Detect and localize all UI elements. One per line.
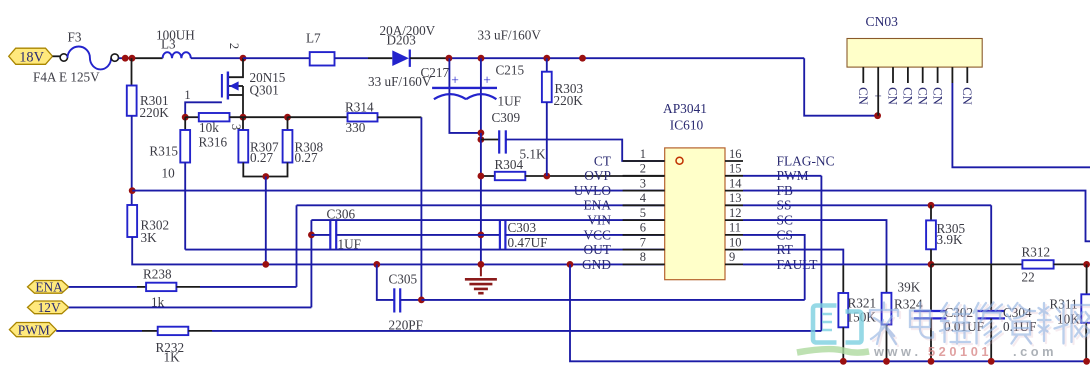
- junction C305 column: [373, 261, 380, 268]
- wire sense tap to GND row: [265, 177, 267, 265]
- wire L3 to Q301 drain: [191, 57, 243, 59]
- svg-text:CN: CN: [960, 87, 974, 105]
- svg-text:1: 1: [640, 147, 646, 161]
- svg-text:+: +: [483, 73, 491, 88]
- svg-text:18V: 18V: [19, 49, 44, 65]
- wire to R307: [242, 117, 244, 130]
- wire D203 cathode: [410, 57, 449, 59]
- CN03 pin 4: [907, 67, 909, 83]
- node gate/R315/R316: [182, 114, 189, 121]
- transistor Q301 leads: [229, 58, 243, 77]
- node source/R307: [240, 114, 247, 121]
- net flag ENA: [28, 281, 69, 294]
- wire PWM row: [743, 175, 821, 177]
- resistor R304: [495, 172, 526, 180]
- junction: [478, 130, 485, 137]
- wire to R311: [1086, 264, 1088, 294]
- svg-text:3K: 3K: [141, 230, 158, 245]
- svg-text:13: 13: [729, 191, 742, 205]
- svg-text:330: 330: [346, 120, 366, 135]
- svg-text:VCC: VCC: [583, 227, 611, 242]
- junction R301 column: [129, 55, 136, 62]
- svg-text:OVP: OVP: [584, 168, 611, 183]
- capacitor C305: [377, 264, 394, 300]
- wire SC to R324: [886, 264, 888, 292]
- junction: [988, 358, 995, 365]
- svg-text:R315: R315: [149, 144, 178, 159]
- wire to R305: [930, 205, 932, 220]
- wire to D203: [368, 57, 392, 59]
- svg-text:GND: GND: [582, 257, 611, 272]
- svg-text:220K: 220K: [140, 105, 170, 120]
- capacitor C304: [978, 310, 1006, 312]
- junction R303 bottom: [543, 173, 550, 180]
- wire R315 to OUT row: [184, 163, 186, 250]
- wire ENA flag to R238: [69, 286, 137, 288]
- svg-text:CN: CN: [856, 87, 870, 105]
- resistor R302: [127, 205, 137, 237]
- wire R308 top to R314: [288, 116, 348, 118]
- svg-text:9: 9: [729, 250, 735, 264]
- svg-text:R304: R304: [495, 157, 524, 172]
- wire ENA riser: [296, 205, 298, 287]
- resistor R316: [199, 113, 230, 121]
- CN03 pin 1: [862, 67, 864, 83]
- wire R314 to CS column: [378, 116, 422, 118]
- svg-text:16: 16: [729, 147, 742, 161]
- CN03 pin 7: [951, 67, 953, 83]
- ground: [480, 264, 482, 276]
- resistor R324: [882, 293, 892, 325]
- svg-text:D203: D203: [387, 33, 417, 48]
- svg-text:R316: R316: [199, 135, 228, 150]
- svg-text:C309: C309: [492, 110, 521, 125]
- svg-text:22: 22: [1022, 270, 1035, 285]
- wire rail to R303: [546, 58, 548, 71]
- resistor R232: [158, 327, 189, 335]
- svg-text:R321: R321: [848, 296, 877, 311]
- svg-text:C217: C217: [421, 65, 450, 80]
- wire (black) to L3: [134, 57, 163, 59]
- capacitor C309: [481, 139, 499, 141]
- IC IC610 AP3041 body: [665, 148, 725, 280]
- junction R311 top: [1083, 261, 1090, 268]
- watermark characters: [872, 305, 1090, 347]
- wire R303 to OVP row: [546, 102, 548, 176]
- junction: [1083, 358, 1090, 365]
- wire flag to fuse: [53, 55, 61, 57]
- CN03 pin 3: [892, 67, 894, 83]
- svg-text:+: +: [451, 73, 459, 88]
- svg-text:w w w .: w w w .: [873, 344, 918, 359]
- wire rail to CN03 pin 2: [804, 58, 877, 115]
- wire SS to C304 column: [990, 205, 992, 264]
- junction: [122, 55, 129, 62]
- wire Q301 gate lead: [185, 102, 222, 117]
- svg-text:1K: 1K: [164, 350, 181, 365]
- svg-text:ENA: ENA: [583, 198, 611, 213]
- resistor R238: [146, 283, 176, 291]
- svg-text:L3: L3: [161, 37, 176, 52]
- junction GND to bottom rail: [567, 261, 574, 268]
- svg-text:12: 12: [729, 206, 742, 220]
- wire C305 to node: [400, 299, 421, 301]
- svg-text:2: 2: [640, 162, 646, 176]
- svg-text:IC610: IC610: [670, 118, 704, 133]
- capacitor C302: [930, 264, 932, 310]
- wire CS row: [743, 235, 805, 300]
- junction: [579, 55, 586, 62]
- junction C305/R314/CS: [418, 297, 425, 304]
- junction: [883, 358, 890, 365]
- svg-text:33 uF/160V: 33 uF/160V: [478, 28, 542, 43]
- junction R305 top: [928, 202, 935, 209]
- capacitor C303: [499, 221, 501, 249]
- connector CN03: [847, 39, 982, 68]
- wire R304 to OVP pin 2: [525, 175, 664, 177]
- wire SC row: [743, 220, 887, 264]
- svg-text:FLAG-NC: FLAG-NC: [777, 153, 835, 168]
- svg-text:F4A E 125V: F4A E 125V: [33, 70, 100, 85]
- svg-text:0.27: 0.27: [295, 150, 318, 165]
- svg-text:3: 3: [640, 176, 646, 190]
- svg-text:10: 10: [729, 235, 742, 249]
- wire GND bottom rail: [570, 264, 1087, 361]
- resistor R307: [238, 130, 248, 163]
- wire rail to corner: [449, 57, 804, 59]
- svg-text:3.9K: 3.9K: [937, 232, 963, 247]
- net flag 12V: [28, 301, 69, 314]
- svg-text:L7: L7: [306, 31, 321, 46]
- capacitor C306: [329, 221, 331, 249]
- wire ENA row: [297, 204, 665, 206]
- node R308/R314: [284, 114, 291, 121]
- svg-text:15: 15: [729, 162, 742, 176]
- wire C306 to ground column: [336, 234, 500, 236]
- wire PWM flag to R232: [56, 330, 142, 332]
- svg-text:R238: R238: [143, 267, 172, 282]
- wire C302 to bottom rail: [930, 318, 932, 361]
- svg-text:Q301: Q301: [250, 83, 279, 98]
- wire rail to R301: [131, 58, 133, 85]
- CN03 pin 6: [937, 67, 939, 83]
- junction R303: [543, 55, 550, 62]
- wire R302 bottom to GND row (pin 8): [132, 237, 665, 264]
- svg-text:5 2 0 1 0 1: 5 2 0 1 0 1: [928, 344, 988, 359]
- wire to R315: [184, 117, 186, 130]
- CN03 pin 5: [922, 67, 924, 83]
- wire FB row: [743, 191, 1090, 242]
- resistor R312: [1022, 260, 1053, 268]
- junction CT net tap: [478, 136, 485, 143]
- junction VCC/ground column: [478, 232, 485, 239]
- svg-text:PWM: PWM: [18, 322, 50, 337]
- svg-text:CT: CT: [594, 153, 611, 168]
- wire CS line: [421, 299, 804, 301]
- wire rail: [243, 57, 310, 59]
- svg-text:CN: CN: [930, 87, 944, 105]
- CN03 pin 8: [966, 67, 968, 83]
- wire C303 to VCC pin 6: [505, 234, 664, 236]
- svg-text:11: 11: [729, 221, 741, 235]
- svg-text:5: 5: [640, 206, 646, 220]
- svg-text:10k: 10k: [199, 120, 219, 135]
- wire R316 to R308 top: [230, 116, 288, 118]
- svg-text:8: 8: [640, 250, 646, 264]
- svg-text:5.1K: 5.1K: [520, 147, 546, 162]
- resistor R303: [542, 72, 552, 103]
- svg-text:OUT: OUT: [583, 242, 611, 257]
- svg-text:14: 14: [729, 176, 742, 190]
- svg-text:6: 6: [640, 221, 646, 235]
- svg-text:R312: R312: [1022, 245, 1051, 260]
- wire (black) to R238: [137, 286, 146, 288]
- svg-text:0.27: 0.27: [250, 150, 273, 165]
- wire C304 column: [990, 264, 992, 311]
- resistor R311: [1081, 294, 1090, 323]
- wire gate to R316: [185, 116, 199, 118]
- svg-text:. c o m: . c o m: [1013, 344, 1054, 359]
- junction CN03 pin2: [874, 112, 881, 119]
- inductor L3: [163, 52, 191, 58]
- svg-text:CN: CN: [886, 87, 900, 105]
- wire R238 to ENA riser: [200, 286, 297, 288]
- CN03 pin2 wire down: [877, 83, 879, 116]
- wire to R304: [481, 175, 495, 177]
- svg-text:2: 2: [227, 43, 241, 49]
- CN03 pin 2: [877, 67, 879, 83]
- svg-text:CN03: CN03: [866, 14, 899, 29]
- junction: [840, 358, 847, 365]
- node UVLO divider tap: [129, 187, 136, 194]
- resistor R315: [180, 130, 190, 163]
- svg-text:AP3041: AP3041: [663, 101, 707, 116]
- wire RT row: [743, 250, 843, 265]
- wire (black) from R232: [188, 330, 212, 332]
- svg-text:220K: 220K: [554, 93, 584, 108]
- wire VIN row: [311, 219, 664, 221]
- junction C215: [478, 55, 485, 62]
- wire PWM column: [820, 176, 822, 331]
- svg-text:F3: F3: [68, 30, 82, 45]
- svg-text:VIN: VIN: [587, 213, 611, 228]
- wire R314 net down to C305/CS node: [420, 117, 422, 300]
- svg-text:0.47UF: 0.47UF: [508, 235, 548, 250]
- watermark logo book: [813, 306, 862, 343]
- wire 12V to VIN riser: [69, 306, 312, 308]
- svg-text:UVLO: UVLO: [574, 183, 612, 198]
- wire R305 to FAULT row: [930, 249, 932, 264]
- junction VCC tap: [308, 232, 315, 239]
- inductor L7: [310, 52, 335, 65]
- resistor R305: [926, 220, 936, 249]
- wire FAULT to R312: [931, 263, 1022, 265]
- wire C215 column: [480, 58, 482, 133]
- svg-text:C215: C215: [496, 63, 525, 78]
- svg-text:12V: 12V: [38, 300, 61, 315]
- wire ground column: [480, 133, 482, 265]
- wire R307/R308 bottom bar: [243, 163, 287, 177]
- wire (black) from R238: [176, 286, 200, 288]
- wire SS row: [743, 204, 991, 206]
- wire VCC row: [311, 234, 330, 236]
- wire to R308: [287, 117, 289, 130]
- IC pin stubs and numbers: [623, 160, 665, 162]
- svg-text:4: 4: [640, 191, 647, 205]
- wire R311 to bottom rail: [1085, 323, 1087, 362]
- junction: [478, 173, 485, 180]
- resistor R301: [127, 86, 137, 116]
- wire R312 to R311 node: [1054, 263, 1087, 265]
- junction GND row: [262, 261, 269, 268]
- diode D203: [392, 50, 409, 66]
- junction Q301 drain: [240, 55, 247, 62]
- svg-text:C306: C306: [327, 207, 356, 222]
- wire FAULT row: [743, 263, 931, 265]
- svg-text:CN: CN: [915, 87, 929, 105]
- svg-text:7: 7: [640, 235, 646, 249]
- resistor R308: [283, 130, 293, 163]
- net flag PWM: [9, 323, 56, 337]
- svg-text:1: 1: [184, 88, 190, 102]
- wire C217 column: [449, 58, 481, 133]
- svg-text:10: 10: [162, 166, 176, 181]
- wire UVLO row to pin 3: [132, 190, 665, 192]
- wire from fuse: [119, 57, 135, 59]
- wire CN03 pin7 out: [952, 83, 1090, 167]
- svg-text:R314: R314: [345, 99, 374, 114]
- fuse F3: [60, 54, 67, 61]
- wire C304 to bottom rail: [990, 318, 992, 361]
- svg-text:1UF: 1UF: [338, 237, 361, 252]
- node sense tap: [262, 173, 269, 180]
- svg-text:ENA: ENA: [35, 280, 63, 295]
- wire: [335, 57, 369, 59]
- wire R324 to bottom rail: [886, 325, 888, 362]
- svg-text:CN: CN: [901, 87, 915, 105]
- junction FAULT/R305/C302: [928, 261, 935, 268]
- svg-text:C305: C305: [389, 271, 418, 286]
- junction C217: [446, 55, 453, 62]
- net flag 18V: [9, 48, 53, 64]
- resistor R321: [838, 293, 848, 327]
- wire VIN/12V riser: [310, 220, 312, 307]
- wire R232 to PWM column: [212, 330, 821, 332]
- svg-text:1UF: 1UF: [498, 94, 521, 109]
- wire C309 to CT pin 1: [506, 140, 665, 162]
- wire R301 to R302 / UVLO tap: [131, 116, 133, 205]
- transistor Q301 symbol: [227, 72, 229, 100]
- resistor R314: [348, 113, 378, 121]
- junction: [928, 358, 935, 365]
- svg-text:39K: 39K: [898, 280, 921, 295]
- wire OUT row: [185, 249, 665, 251]
- wire RT to R321: [842, 264, 844, 293]
- junction GND row: [478, 261, 485, 268]
- svg-text:C303: C303: [508, 220, 537, 235]
- wire R321 to bottom rail: [842, 327, 844, 361]
- wire (black) to R232: [142, 330, 158, 332]
